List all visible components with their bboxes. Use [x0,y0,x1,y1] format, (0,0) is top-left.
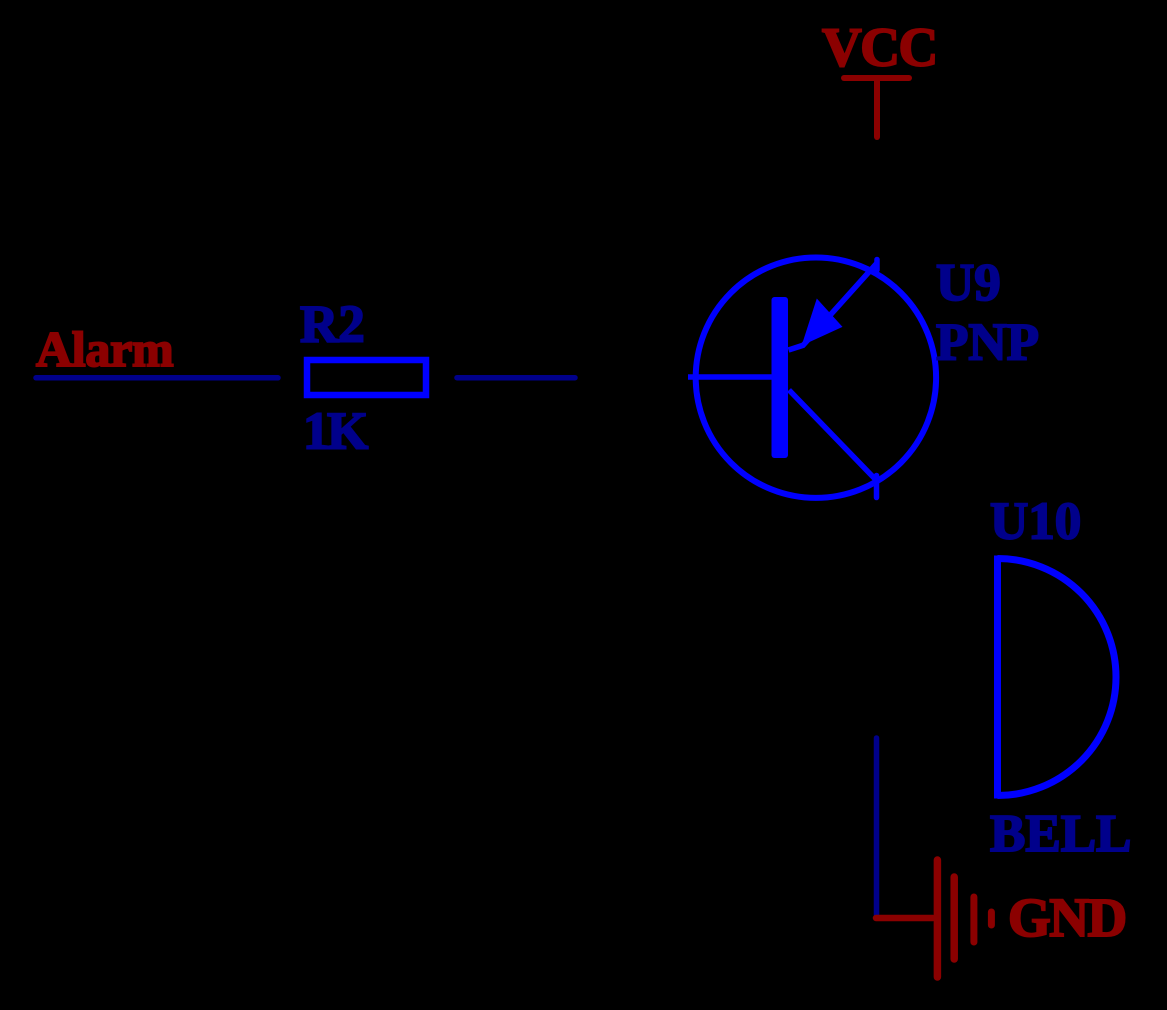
svg-text:U9: U9 [936,254,1001,312]
svg-text:Alarm: Alarm [36,321,173,377]
svg-text:GND: GND [1008,887,1126,948]
svg-text:1K: 1K [303,403,368,461]
svg-text:VCC: VCC [822,17,937,78]
svg-text:R2: R2 [300,296,365,354]
svg-text:U10: U10 [990,493,1081,551]
svg-text:PNP: PNP [936,314,1039,372]
svg-text:BELL: BELL [990,805,1131,863]
